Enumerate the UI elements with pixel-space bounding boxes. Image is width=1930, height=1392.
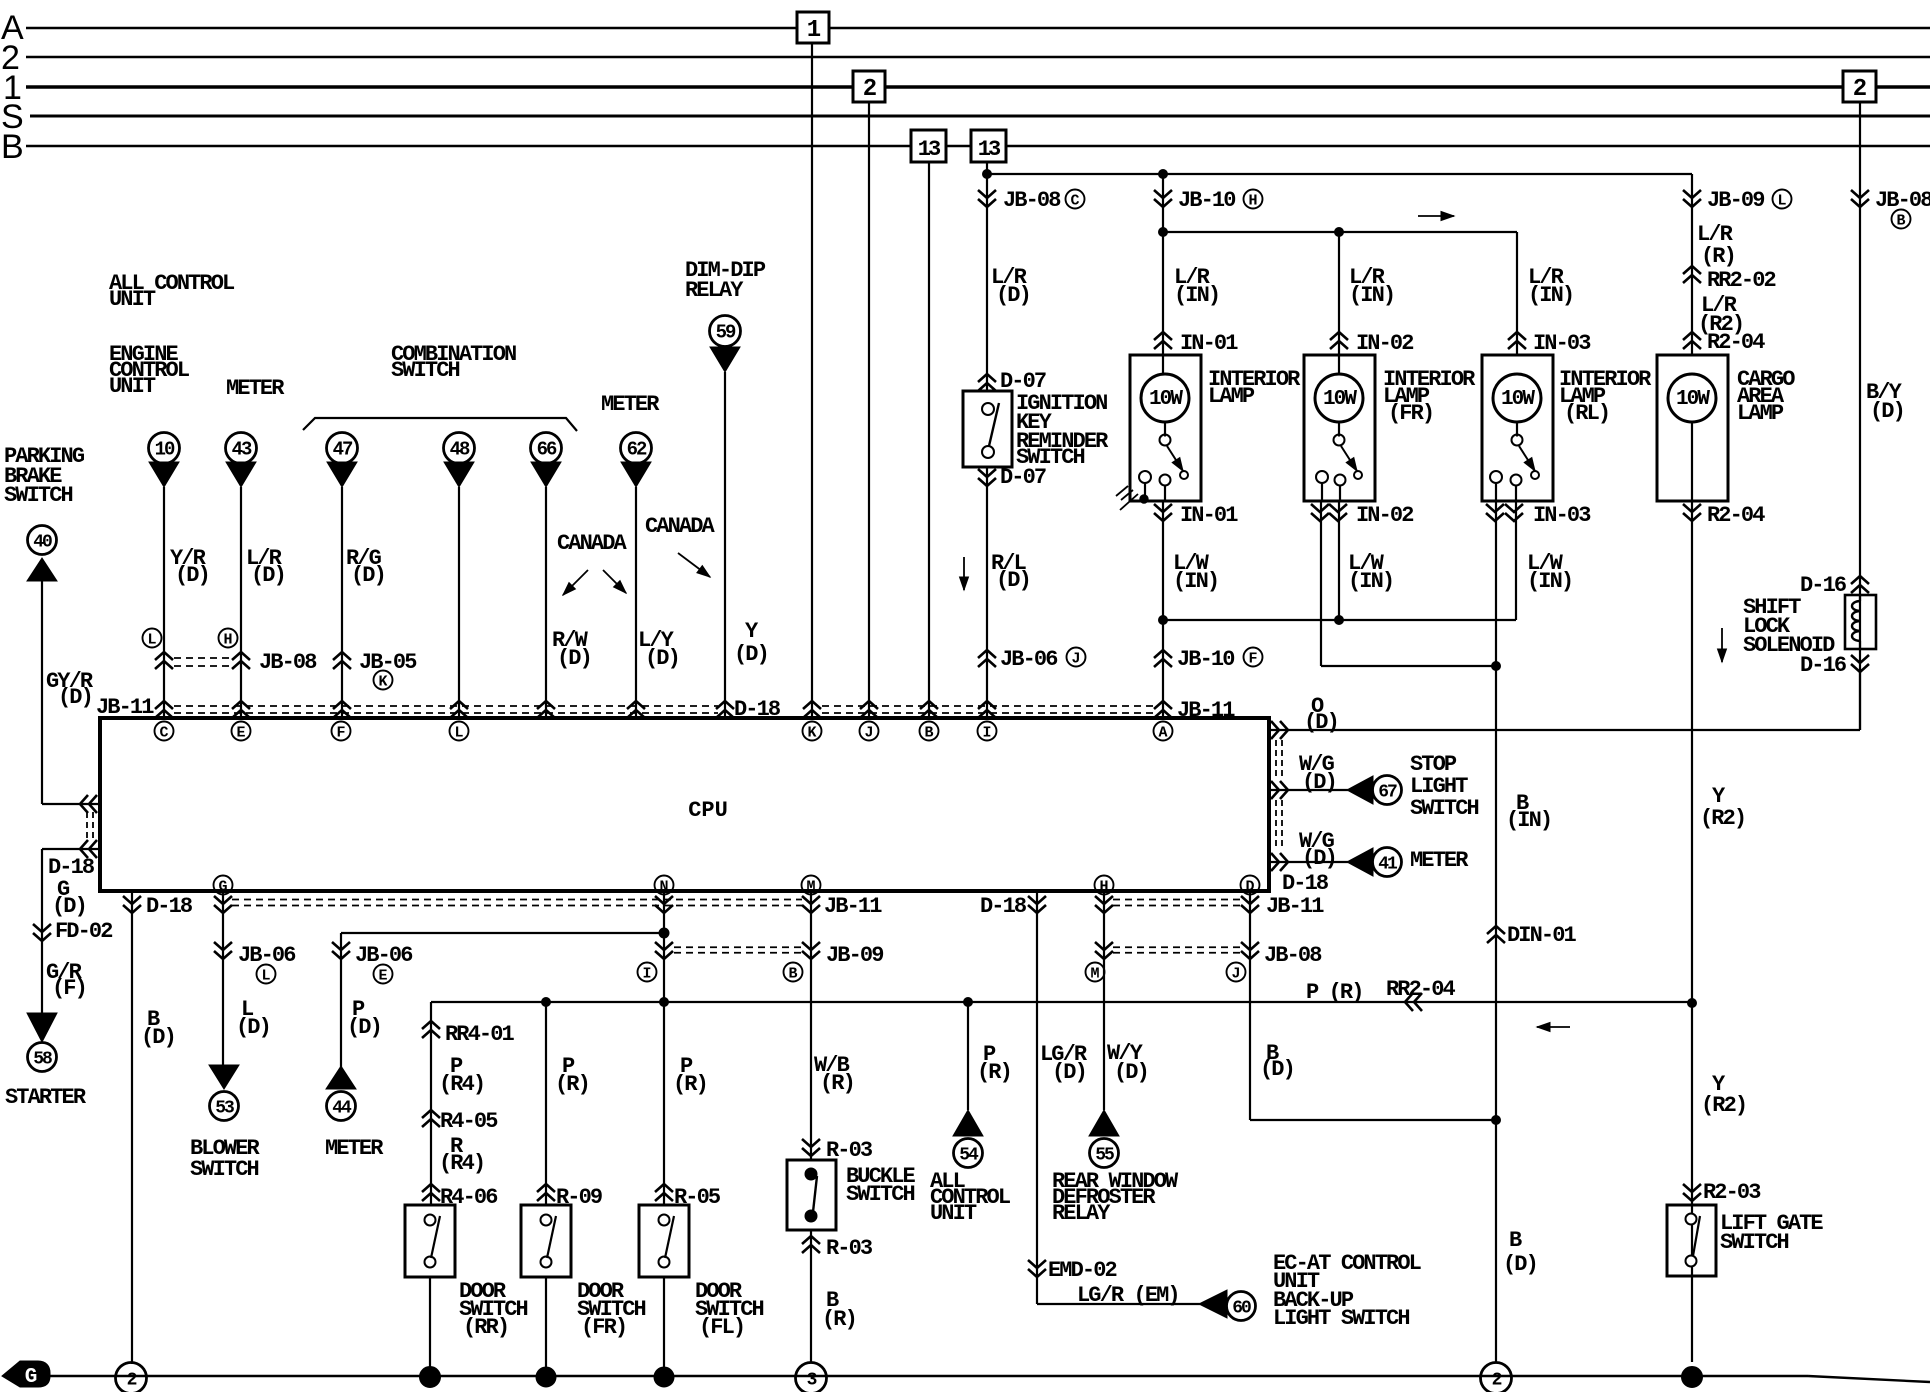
- CPU top pin E: [232, 722, 251, 741]
- lamp1 switch common: [1160, 435, 1171, 446]
- junction 664,1002: [660, 998, 669, 1007]
- CPU top pin J: [860, 722, 879, 741]
- svg-text:METER: METER: [325, 1136, 384, 1161]
- bulb 10W lamp3: [1493, 374, 1541, 422]
- arrow canada left-down2: [603, 570, 626, 593]
- svg-text:D-18: D-18: [980, 894, 1027, 919]
- svg-text:L: L: [1777, 193, 1786, 210]
- svg-text:JB-08: JB-08: [1003, 188, 1061, 213]
- svg-text:D-07: D-07: [1000, 465, 1046, 490]
- svg-text:RELAY: RELAY: [685, 278, 744, 303]
- page connector 10 arrow: [149, 462, 179, 487]
- connector JB-06 chevron x987: [978, 650, 996, 667]
- connector JB-11 row chevron x812: [803, 701, 821, 718]
- svg-text:B: B: [1, 128, 24, 166]
- dashed link right edge lower: [1275, 800, 1277, 850]
- switch door FL box: [639, 1205, 689, 1277]
- connector R2-04 chevron above cargo lamp: [1683, 332, 1701, 349]
- svg-text:(IN): (IN): [1527, 569, 1572, 594]
- svg-text:CPU: CPU: [688, 798, 728, 823]
- CPU top pin A: [1154, 722, 1173, 741]
- svg-text:JB-11: JB-11: [824, 894, 882, 919]
- connector bottom row1 chevron x811: [802, 896, 820, 913]
- ground symbol G: [2, 1361, 50, 1387]
- svg-text:(R2): (R2): [1701, 1093, 1746, 1118]
- wire lamp feed rail y232: [1163, 231, 1517, 233]
- connector JB-11 row chevron x459: [450, 701, 468, 718]
- wire buckle column lower: [810, 1230, 812, 1363]
- page connector 41 arrow: [1347, 848, 1373, 876]
- svg-text:JB-11: JB-11: [1266, 894, 1324, 919]
- svg-text:48: 48: [450, 439, 470, 461]
- svg-text:C: C: [159, 725, 168, 742]
- pin letter J bottom: [1227, 963, 1246, 982]
- wire bus S: [30, 115, 1930, 118]
- svg-text:(D): (D): [1114, 1060, 1148, 1085]
- svg-text:IN-01: IN-01: [1180, 503, 1238, 528]
- svg-text:LG/R (EM): LG/R (EM): [1077, 1283, 1179, 1308]
- junction at 1163,174: [1159, 170, 1168, 179]
- ground dot cargo column: [1682, 1367, 1703, 1388]
- connector IN-01 chevron below lamp1: [1154, 504, 1172, 521]
- connector R-09 chevron: [537, 1184, 555, 1201]
- svg-text:(D): (D): [1503, 1252, 1537, 1277]
- door FR top contact: [541, 1215, 552, 1226]
- svg-text:F: F: [336, 725, 345, 742]
- dashed link bottom row1 left: [232, 899, 802, 901]
- connector box 2 on bus 1: [853, 71, 885, 102]
- connector chevron right WG1: [1271, 781, 1288, 799]
- svg-text:K: K: [378, 674, 387, 691]
- wire meter44 horizontal: [341, 932, 664, 934]
- svg-text:13: 13: [918, 137, 941, 162]
- svg-text:IN-01: IN-01: [1180, 331, 1238, 356]
- connector FD-02 chevron: [33, 924, 51, 941]
- svg-text:10W: 10W: [1149, 388, 1183, 411]
- wire buckle column upper: [810, 893, 812, 1160]
- wire P(R) rail: [431, 1001, 1692, 1003]
- connector bottom row1 chevron x132: [123, 896, 141, 913]
- wire cargo lamp down: [1691, 501, 1693, 1362]
- svg-text:JB-08: JB-08: [1264, 943, 1322, 968]
- svg-text:(FL): (FL): [699, 1315, 744, 1340]
- CPU top pin I: [978, 722, 997, 741]
- connector JB-11 row chevron x869: [860, 701, 878, 718]
- lamp3 switch common: [1512, 435, 1523, 446]
- junction 1692,1003: [1688, 999, 1697, 1008]
- svg-text:EMD-02: EMD-02: [1048, 1258, 1117, 1283]
- arrow left marker: [1537, 1026, 1570, 1028]
- lamp2 switch lever: [1341, 446, 1357, 471]
- svg-text:2: 2: [1492, 1371, 1502, 1391]
- page connector 48 arrow: [444, 462, 474, 487]
- page connector 40 circle: [28, 526, 57, 555]
- wire O(D) from CPU to solenoid: [1269, 729, 1860, 731]
- connector JB-09 chevron x1692: [1683, 190, 1701, 207]
- svg-text:(D): (D): [996, 568, 1030, 593]
- connector IN-03 chevron above lamp3: [1508, 332, 1526, 349]
- dashed link D-18 left edge: [86, 812, 88, 842]
- wire from box 2 to CPU pin J: [868, 102, 870, 718]
- svg-text:2: 2: [863, 76, 876, 103]
- svg-text:R-03: R-03: [826, 1236, 873, 1261]
- svg-text:G: G: [25, 1366, 38, 1389]
- svg-text:G: G: [218, 879, 227, 896]
- svg-text:(D): (D): [251, 563, 285, 588]
- lift gate switch bottom contact: [1686, 1256, 1697, 1267]
- wire bus 1: [26, 85, 853, 89]
- CPU bottom pin H: [1095, 876, 1114, 895]
- wire W/G to stop light switch: [1269, 789, 1348, 791]
- junction 1496,1120: [1492, 1116, 1501, 1125]
- svg-text:55: 55: [1095, 1146, 1114, 1166]
- wire lamp2 mid terminal down: [1339, 486, 1341, 502]
- wire 1163 down to lamp: [1162, 174, 1164, 374]
- wire bus B: [26, 145, 911, 147]
- connector JB-11 row chevron x987: [978, 701, 996, 718]
- svg-text:D-18: D-18: [48, 855, 95, 880]
- svg-text:D-16: D-16: [1800, 653, 1846, 678]
- lift gate switch top contact: [1686, 1214, 1697, 1225]
- connector bottom row2 chevron x341: [332, 942, 350, 959]
- svg-text:UNIT: UNIT: [109, 374, 156, 399]
- wire lamp3 left terminal down: [1495, 483, 1497, 667]
- svg-text:METER: METER: [226, 376, 285, 401]
- svg-text:RELAY: RELAY: [1052, 1201, 1111, 1226]
- svg-text:A: A: [1158, 725, 1167, 742]
- wire lamp feed rail y174: [987, 173, 1692, 175]
- svg-text:41: 41: [1378, 855, 1398, 875]
- svg-text:D-18: D-18: [1282, 871, 1329, 896]
- connector JB-11 row chevron x164: [155, 701, 173, 718]
- svg-text:(D): (D): [347, 1015, 381, 1040]
- connector D-16 chevron below solenoid: [1851, 655, 1869, 672]
- svg-text:JB-11: JB-11: [96, 695, 154, 720]
- dashed link bottom row1 right: [1113, 899, 1240, 901]
- svg-text:IN-03: IN-03: [1533, 503, 1591, 528]
- page connector 62 arrow: [621, 462, 651, 487]
- CPU bottom pin N: [655, 876, 674, 895]
- lamp3 switch lever: [1519, 446, 1535, 471]
- svg-text:59: 59: [716, 322, 736, 344]
- svg-text:(IN): (IN): [1348, 569, 1393, 594]
- connector JB-11 row chevron x1163: [1154, 701, 1172, 718]
- connector bottom row1 chevron x1037: [1028, 896, 1046, 913]
- svg-text:K: K: [807, 725, 816, 742]
- connector bottom row2 chevron x664: [655, 942, 673, 959]
- svg-text:(D): (D): [351, 563, 385, 588]
- svg-text:(FR): (FR): [1388, 401, 1433, 426]
- door RR top contact: [425, 1215, 436, 1226]
- connector R4-06 chevron: [422, 1184, 440, 1201]
- buckle lever: [813, 1176, 817, 1212]
- wire from box 1 to CPU pin K: [811, 43, 813, 718]
- bulb 10W lamp2: [1315, 374, 1363, 422]
- switch door FR box: [521, 1205, 571, 1277]
- svg-text:(RL): (RL): [1564, 401, 1609, 426]
- page connector 59 circle: [710, 316, 741, 347]
- svg-text:58: 58: [33, 1050, 52, 1070]
- connector R-05 chevron: [655, 1184, 673, 1201]
- page connector 53 circle: [210, 1092, 239, 1121]
- connector box 2 right on bus 1: [1843, 71, 1876, 102]
- svg-text:SWITCH: SWITCH: [846, 1182, 915, 1207]
- combination switch bracket: [303, 418, 577, 431]
- page connector 54 circle: [954, 1139, 983, 1168]
- wire B(IN) from lamps down: [1495, 666, 1497, 1362]
- lift gate switch lever: [1693, 1216, 1700, 1256]
- connector RR2-02 chevron: [1683, 266, 1701, 283]
- door FL top contact: [659, 1215, 670, 1226]
- wire lamp1 left terminal stub: [1144, 483, 1146, 501]
- svg-text:47: 47: [333, 439, 353, 461]
- wire lamp2 left terminal down: [1321, 483, 1323, 502]
- pin letter L bottom: [257, 965, 276, 984]
- svg-text:IN-02: IN-02: [1356, 331, 1413, 356]
- ground dot door FL: [654, 1367, 674, 1387]
- connector R2-04 chevron below cargo lamp: [1683, 504, 1701, 521]
- connector IN-03 chevrons below lamp3: [1486, 504, 1504, 521]
- page connector 48 circle: [444, 433, 475, 464]
- svg-text:H: H: [1248, 193, 1257, 210]
- wire door FL column: [663, 893, 665, 1205]
- svg-text:M: M: [1090, 966, 1099, 983]
- dashed link bottom row2 mid: [674, 946, 802, 948]
- svg-text:2: 2: [127, 1371, 137, 1391]
- ground rail: [46, 1375, 1808, 1377]
- svg-text:62: 62: [627, 439, 647, 461]
- connector JB-10 chevron x1163: [1154, 190, 1172, 207]
- wire cargo bulb to box bottom: [1691, 422, 1693, 501]
- junction 664,932: [659, 928, 669, 938]
- wire bus A: [26, 27, 797, 29]
- wire from box 13 left to CPU pin B: [928, 162, 930, 718]
- arrow canada left-down: [563, 570, 588, 595]
- connector IN-01 chevron above lamp1: [1154, 332, 1172, 349]
- page connector 47 circle: [327, 433, 358, 464]
- svg-text:JB-09: JB-09: [826, 943, 883, 968]
- svg-text:10W: 10W: [1323, 388, 1357, 411]
- CPU top pin F: [332, 722, 351, 741]
- ground dot door FR: [536, 1367, 556, 1387]
- svg-text:D-18: D-18: [734, 697, 781, 722]
- connector DIN-01 chevron: [1487, 926, 1505, 943]
- wire lamp2 left to junction y666: [1321, 665, 1496, 667]
- dashed link JB-11 top row left: [174, 705, 718, 707]
- wire 54 column: [967, 1002, 969, 1110]
- connector JB-11 row chevron x241: [232, 701, 250, 718]
- svg-text:B: B: [924, 725, 933, 742]
- page connector 67 arrow: [1347, 776, 1373, 804]
- page connector 66 circle: [531, 433, 562, 464]
- connector D-07 chevron below switch: [978, 469, 996, 486]
- wire from box 2 right down right edge: [1859, 102, 1861, 730]
- svg-text:43: 43: [232, 439, 252, 461]
- wire pin D to B(IN) wire: [1250, 1119, 1496, 1121]
- svg-text:SWITCH: SWITCH: [1410, 796, 1479, 821]
- wire door FR to ground: [545, 1277, 547, 1377]
- svg-text:(R): (R): [977, 1060, 1011, 1085]
- svg-text:(D): (D): [1870, 399, 1904, 424]
- page connector 41 circle: [1373, 848, 1402, 877]
- svg-text:40: 40: [33, 533, 52, 553]
- arrow right marker above lamps: [1418, 215, 1454, 217]
- wire B(D) x132 to ground: [131, 893, 133, 1364]
- svg-text:L: L: [147, 632, 156, 649]
- svg-text:(D): (D): [175, 563, 209, 588]
- svg-text:RR2-02: RR2-02: [1707, 268, 1776, 293]
- svg-text:J: J: [1231, 966, 1240, 983]
- page connector 58 arrow down: [27, 1013, 57, 1042]
- svg-text:LAMP: LAMP: [1737, 401, 1784, 426]
- pin letter H near wire 43: [219, 629, 238, 648]
- arrow down marker near solenoid: [1721, 628, 1723, 662]
- wire from box 13 right to node at y174: [986, 162, 988, 174]
- IC CPU box: [100, 718, 1269, 891]
- wire 987 feed to switch: [986, 174, 988, 392]
- connector R-03 chevron upper: [802, 1139, 820, 1156]
- svg-text:M: M: [806, 879, 815, 896]
- svg-text:METER: METER: [1410, 848, 1469, 873]
- connector box 1 on bus A: [797, 12, 829, 43]
- wire 459 down to CPU: [458, 487, 460, 718]
- svg-text:SWITCH: SWITCH: [391, 358, 460, 383]
- connector bottom row1 chevron x223: [214, 896, 232, 913]
- CPU bottom pin G: [214, 876, 233, 895]
- wire 55 column: [1103, 893, 1105, 1110]
- connector box 13 left on bus B: [911, 130, 946, 162]
- switch lift gate box: [1667, 1205, 1716, 1276]
- svg-text:E: E: [378, 968, 387, 985]
- wire 727 down to CPU: [724, 372, 726, 718]
- lamp3 terminal mid: [1511, 475, 1522, 486]
- ignition switch moving contact: [982, 446, 994, 458]
- svg-text:R2-04: R2-04: [1707, 330, 1765, 355]
- connector bottom row1 chevron x1104: [1095, 896, 1113, 913]
- wire lamp2 bulb to switch: [1338, 422, 1340, 437]
- svg-text:(D): (D): [645, 646, 679, 671]
- page connector 60 arrow: [1199, 1290, 1227, 1318]
- svg-text:SWITCH: SWITCH: [1720, 1230, 1789, 1255]
- junction 1163,620: [1159, 616, 1168, 625]
- svg-text:J: J: [1071, 651, 1080, 668]
- wire door FL to ground: [663, 1277, 665, 1377]
- page connector 59 arrow: [710, 347, 740, 372]
- svg-text:(D): (D): [557, 646, 591, 671]
- page connector 67 circle: [1373, 776, 1402, 805]
- switch door RR box: [405, 1205, 455, 1277]
- svg-text:(F): (F): [52, 976, 86, 1001]
- lamp interior box 1: [1130, 355, 1201, 501]
- svg-text:(D): (D): [58, 685, 92, 710]
- lamp interior box 3 RL: [1482, 355, 1553, 501]
- wire into CPU left pin upper: [42, 803, 100, 805]
- junction 1339,620: [1335, 616, 1344, 625]
- svg-text:(R): (R): [673, 1072, 707, 1097]
- svg-text:(R4): (R4): [439, 1072, 484, 1097]
- svg-text:JB-06: JB-06: [1000, 647, 1057, 672]
- page connector 40 arrow up: [27, 558, 57, 581]
- svg-text:JB-08: JB-08: [259, 650, 317, 675]
- svg-text:I: I: [642, 966, 651, 983]
- connector D-07 chevron above switch: [978, 374, 996, 391]
- wire bus 2: [26, 56, 1930, 58]
- svg-text:D: D: [1245, 879, 1254, 896]
- svg-text:L: L: [261, 968, 270, 985]
- svg-text:P (R): P (R): [1306, 980, 1363, 1005]
- svg-text:3: 3: [807, 1371, 817, 1391]
- wire lamp1 bulb to switch: [1164, 422, 1166, 437]
- svg-text:(D): (D): [1052, 1060, 1086, 1085]
- solenoid coil: [1852, 601, 1861, 641]
- connector R2-03 chevron: [1683, 1184, 1701, 1201]
- lamp cargo area box: [1657, 355, 1728, 501]
- dashed link JB-11 top row right: [822, 705, 1155, 707]
- CPU bottom pin M: [802, 876, 821, 895]
- svg-text:(RR): (RR): [463, 1315, 508, 1340]
- svg-text:B: B: [1896, 213, 1905, 230]
- wire lamp3 bulb to switch: [1516, 422, 1518, 437]
- connector R4-05 chevron: [422, 1110, 440, 1127]
- lamp1 terminal mid: [1160, 475, 1171, 486]
- page connector 66 arrow: [531, 462, 561, 487]
- svg-text:LAMP: LAMP: [1208, 384, 1255, 409]
- svg-text:F: F: [1248, 651, 1257, 668]
- svg-text:RR2-04: RR2-04: [1386, 977, 1456, 1002]
- wire corner down to cargo lamp: [1691, 174, 1693, 355]
- svg-text:(IN): (IN): [1349, 283, 1394, 308]
- svg-text:JB-10: JB-10: [1178, 188, 1235, 213]
- CPU top pin C: [155, 722, 174, 741]
- svg-text:SWITCH: SWITCH: [4, 483, 73, 508]
- connector IN-02 chevrons below lamp2: [1311, 504, 1329, 521]
- connector JB-08 chevron x164: [155, 652, 173, 669]
- junction at 1339,232: [1335, 228, 1344, 237]
- svg-text:54: 54: [959, 1146, 979, 1166]
- page connector 43 circle: [226, 433, 257, 464]
- svg-text:(IN): (IN): [1528, 283, 1573, 308]
- svg-text:I: I: [982, 725, 991, 742]
- pin letter E bottom: [374, 965, 393, 984]
- junction 968,1002: [964, 998, 973, 1007]
- CPU top pin B: [920, 722, 939, 741]
- dashed link JB-08: [174, 657, 232, 659]
- svg-text:67: 67: [1378, 783, 1397, 803]
- door FR bottom contact: [541, 1257, 552, 1268]
- pin letter L near wire 10: [143, 629, 162, 648]
- dashed link bottom row2 right: [1113, 946, 1240, 948]
- lamp1 terminal left: [1139, 471, 1151, 483]
- svg-text:JB-10: JB-10: [1177, 647, 1234, 672]
- connector bottom row2 chevron x223: [214, 942, 232, 959]
- junction 664,933: [660, 929, 669, 938]
- wire pin D down: [1249, 893, 1251, 1120]
- lamp2 terminal left: [1316, 471, 1328, 483]
- connector JB-08 chevron x987: [978, 190, 996, 207]
- connector JB-08 chevron x241: [232, 652, 250, 669]
- svg-text:L: L: [454, 725, 463, 742]
- wire 546 down to CPU: [545, 487, 547, 718]
- svg-text:(R): (R): [820, 1071, 854, 1096]
- ground terminal circle 2 right: [1481, 1363, 1512, 1392]
- wire below ignition switch: [986, 467, 988, 718]
- svg-text:(D): (D): [734, 642, 768, 667]
- ground terminal circle 2 left: [116, 1363, 147, 1392]
- page connector 54 arrow up: [953, 1110, 983, 1136]
- wire out of CPU left pin lower: [42, 848, 100, 850]
- svg-text:STARTER: STARTER: [5, 1085, 87, 1110]
- svg-text:(R2): (R2): [1700, 806, 1745, 831]
